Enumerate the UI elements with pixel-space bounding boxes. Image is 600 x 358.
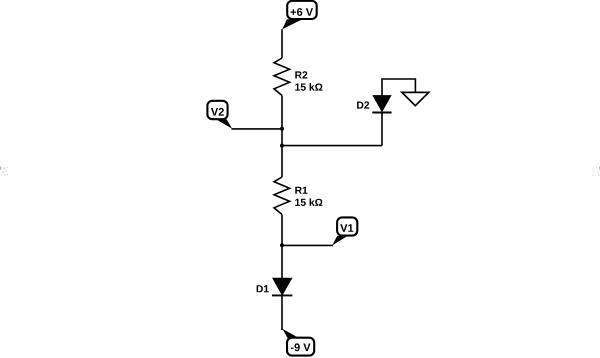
flag +6 V text — [291, 8, 313, 16]
node junction dot to D2 branch — [280, 144, 284, 148]
resistor R2 — [274, 58, 290, 96]
diode D1 triangle — [273, 278, 292, 295]
wire: between junctions — [281, 129, 283, 146]
ground symbol — [402, 92, 429, 105]
wire: R2 to node V2 — [281, 96, 283, 129]
flag V2 tail — [216, 119, 232, 129]
label R2 15 kOhm — [295, 71, 307, 78]
node junction dot V1 — [280, 243, 284, 247]
left edge artifact — [0, 167, 8, 176]
wire: D2 up and over to ground — [382, 79, 415, 96]
right edge artifact — [592, 167, 600, 176]
diode D2 vertical lead lower — [381, 113, 383, 146]
flag V2 text — [211, 108, 224, 116]
wire: V1 horizontal — [282, 244, 333, 246]
wire: junction down to R1 — [281, 146, 283, 177]
wire: horizontal to D2 — [282, 145, 382, 147]
resistor R1 — [274, 177, 290, 215]
wire: R1 to node V1 — [281, 215, 283, 246]
wire: D1 to -9V — [281, 295, 283, 330]
node junction dot V2 — [280, 127, 284, 131]
flag V1 tail — [332, 236, 347, 246]
wire: V2 horizontal — [232, 128, 283, 130]
flag +6 V box — [287, 1, 317, 19]
flag -9 V text — [291, 343, 311, 351]
flag +6 V tail — [282, 19, 301, 29]
label D2 — [357, 101, 369, 108]
wire: +6V lead down to R2 — [281, 29, 283, 58]
flag V1 box — [337, 217, 357, 235]
diode D2 cathode bar — [372, 112, 391, 114]
label R1 15 kOhm — [295, 187, 307, 194]
flag V1 text — [340, 224, 353, 232]
wire: node to D1 — [281, 245, 283, 278]
flag V2 box — [207, 101, 227, 119]
diode D1 cathode bar — [272, 294, 292, 296]
flag -9 V box — [287, 338, 314, 356]
flag -9 V tail — [282, 329, 298, 339]
diode D2 triangle — [373, 96, 391, 112]
label D1 — [257, 285, 269, 292]
